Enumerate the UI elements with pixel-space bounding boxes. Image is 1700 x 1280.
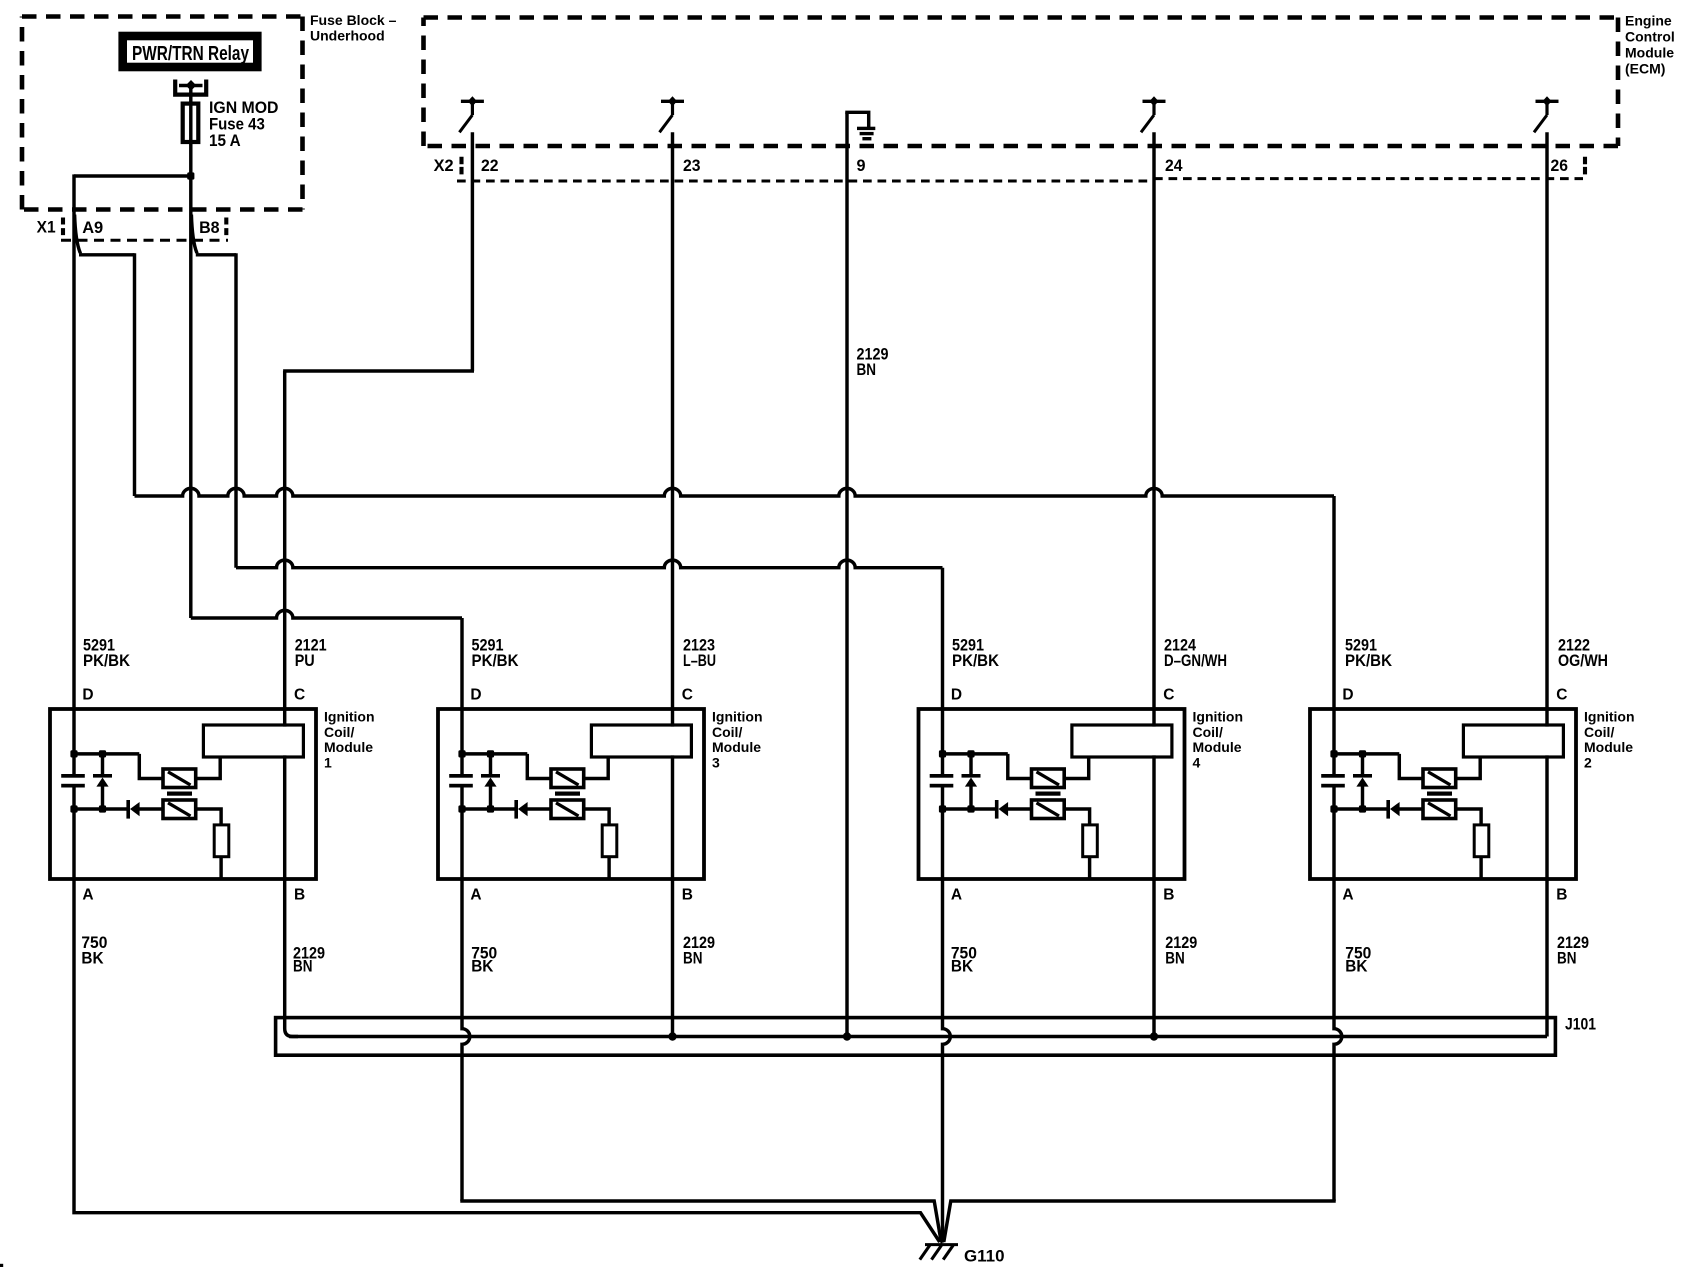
svg-text:Module: Module [324, 739, 373, 755]
wire pin B8 feed-through [189, 214, 192, 619]
wire coil 4 pin A 750 BK to ground [943, 879, 951, 1243]
fuse block - underhood dashed enclosure [22, 17, 303, 210]
coil 4 internal supply node wire [943, 752, 1008, 755]
coil 4 zener diode [962, 752, 981, 809]
coil 4 primary winding feed wire [1008, 754, 1032, 779]
wire coil 1 pin A 750 BK to ground [74, 879, 940, 1242]
svg-text:D: D [470, 686, 481, 703]
coil 1 resistor [214, 825, 229, 857]
svg-text:BK: BK [951, 957, 974, 976]
coil 3 pin A internal wire [460, 808, 463, 881]
svg-text:C: C [1556, 686, 1567, 703]
svg-text:2: 2 [1584, 755, 1592, 771]
ECM driver pin 26 symbol [1534, 96, 1559, 132]
label circuit 2124 D-GN/WH [1164, 636, 1227, 671]
label circuit 750 BK coil 2 [1345, 944, 1371, 976]
coil 1 transformer primary winding [163, 769, 196, 788]
coil 3 transformer primary winding [551, 769, 584, 788]
coil 2 transformer core [1427, 792, 1452, 796]
coil 3 secondary to resistor wire [584, 809, 609, 825]
wire through fuse [189, 101, 192, 176]
connector X1 right bracket [224, 218, 228, 237]
svg-text:24: 24 [1165, 156, 1183, 175]
svg-text:OG/WH: OG/WH [1558, 651, 1608, 670]
connector X2 bottom dashed edge [457, 180, 1154, 183]
svg-text:Ignition: Ignition [324, 709, 375, 725]
coil 1 diode [126, 800, 163, 819]
label Ignition Coil/Module 1 [324, 709, 375, 771]
svg-text:Module: Module [1625, 45, 1674, 61]
ignition coil module 1 box [50, 709, 316, 879]
coil 3 primary winding feed wire [527, 754, 551, 779]
coil 2 internal supply node wire [1334, 752, 1399, 755]
wire fuse output junction to A9 [74, 174, 191, 177]
coil 1 junction dot D node [70, 750, 77, 757]
label circuit 2123 L-BU [683, 636, 716, 671]
svg-text:Module: Module [712, 739, 761, 755]
coil 1 wire output box to pin B [283, 755, 286, 881]
label circuit 750 BK coil 4 [951, 944, 977, 976]
svg-text:J101: J101 [1565, 1014, 1596, 1033]
svg-text:BN: BN [683, 948, 703, 967]
wire coil 2 pin B 2129 BN into splice [1545, 879, 1548, 1037]
svg-text:Coil/: Coil/ [1193, 724, 1223, 740]
label Fuse Block - Underhood [310, 12, 397, 43]
coil 3 zener diode [481, 752, 500, 809]
coil 3 wire output box to pin B [671, 755, 674, 881]
svg-text:PWR/TRN Relay: PWR/TRN Relay [132, 43, 250, 65]
coil 2 junction dot D node [1330, 750, 1337, 757]
coil 4 diode [995, 800, 1032, 819]
label circuit 2129 BN coil 3 [683, 933, 715, 967]
coil 3 internal supply node wire [462, 752, 527, 755]
coil 2 junction dot A node [1330, 805, 1337, 812]
coil 2 zener diode [1353, 752, 1372, 809]
coil 4 secondary output box [1072, 725, 1172, 757]
svg-text:BK: BK [81, 948, 104, 967]
wire pigtail B8 horizontal [196, 253, 236, 256]
coil 4 transformer secondary winding [1032, 800, 1065, 819]
connector X1 bottom dashed edge [61, 239, 228, 242]
coil 1 junction dot A node [70, 805, 77, 812]
svg-text:23: 23 [683, 156, 701, 175]
coil 2 wire output box to pin B [1545, 755, 1548, 881]
svg-text:L–BU: L–BU [683, 651, 716, 670]
wire pin A9 pigtail [75, 215, 81, 254]
coil 3 wire pin C into output box [671, 723, 674, 726]
splice bus 2129 BN [289, 1035, 1547, 1038]
svg-text:Engine: Engine [1625, 13, 1672, 29]
wire B8 branch down to bus [234, 253, 237, 568]
label circuit 2129 BN coil 2 [1557, 933, 1589, 967]
svg-text:3: 3 [712, 755, 720, 771]
junction dot splice coil 3 [668, 1032, 676, 1040]
svg-text:BN: BN [1165, 948, 1185, 967]
ignition coil module 2 box [1310, 709, 1576, 879]
label circuit 2122 OG/WH [1558, 636, 1608, 671]
wire ECM pin 9 ground 2129 BN [845, 112, 848, 1036]
coil 1 junction dot zener top [99, 750, 106, 757]
label circuit 5291 PK/BK coil 3 [472, 636, 520, 671]
svg-text:B: B [1163, 887, 1174, 904]
label circuit 5291 PK/BK coil 2 [1345, 636, 1393, 671]
svg-text:BN: BN [1557, 948, 1577, 967]
coil 3 resistor [602, 825, 617, 857]
ignition coil module 4 box [919, 709, 1185, 879]
coil 2 resistor [1474, 825, 1489, 857]
wire node to X1 pin A9 [72, 174, 75, 213]
wire relay to fuse [189, 86, 192, 104]
coil 4 wire pin C into output box [1152, 723, 1155, 726]
coil 1 ground row wire [74, 807, 127, 810]
label Ignition Coil/Module 2 [1584, 709, 1635, 771]
coil 4 junction dot D node [939, 750, 946, 757]
junction dot splice ECM ground [843, 1032, 851, 1040]
coil 2 junction dot zener top [1359, 750, 1366, 757]
coil 1 resistor to case wire [219, 857, 222, 878]
svg-text:Module: Module [1584, 739, 1633, 755]
coil 3 junction dot zener top [487, 750, 494, 757]
wire coil 3 pin B 2129 BN [671, 879, 674, 1037]
svg-text:15 A: 15 A [209, 131, 241, 150]
svg-text:Ignition: Ignition [1584, 709, 1635, 725]
ignition coil module 3 box [438, 709, 704, 879]
svg-text:B: B [294, 887, 305, 904]
label circuit 5291 PK/BK coil 4 [952, 636, 1000, 671]
svg-text:PK/BK: PK/BK [83, 651, 131, 670]
ECM driver pin 23 symbol [660, 96, 685, 132]
svg-text:D: D [82, 686, 93, 703]
coil 2 primary winding feed wire [1399, 754, 1423, 779]
coil 2 resistor to case wire [1479, 857, 1482, 878]
svg-text:Ignition: Ignition [712, 709, 763, 725]
fuse IGN MOD Fuse 43 15 A [183, 104, 199, 142]
connector X1 left bracket [61, 218, 65, 237]
coil 1 internal supply node wire [74, 752, 139, 755]
svg-text:Module: Module [1193, 739, 1242, 755]
ECM internal ground symbol at pin 9 [847, 112, 875, 140]
svg-text:9: 9 [857, 156, 866, 175]
coil 1 transformer secondary winding [163, 800, 196, 819]
coil 3 ground row wire [462, 807, 515, 810]
connector X2 left bracket [459, 157, 463, 177]
coil 1 primary winding feed wire [139, 754, 163, 779]
coil 2 transformer primary winding [1423, 769, 1456, 788]
coil 4 junction dot zener top [967, 750, 974, 757]
splice pack J101 box [276, 1018, 1556, 1056]
svg-text:Coil/: Coil/ [1584, 724, 1614, 740]
svg-text:(ECM): (ECM) [1625, 61, 1665, 77]
svg-text:X2: X2 [434, 156, 454, 175]
svg-text:A: A [470, 887, 481, 904]
relay K1 PWR/TRN Relay box [123, 36, 258, 67]
coil 4 ground row wire [943, 807, 996, 810]
junction dot splice coil 4 [1150, 1032, 1158, 1040]
label circuit 750 BK coil 3 [471, 944, 497, 976]
svg-text:22: 22 [481, 156, 499, 175]
svg-text:BN: BN [857, 360, 877, 379]
svg-text:C: C [294, 686, 305, 703]
wire coil 2 pin A 750 BK to ground [1334, 879, 1342, 1201]
coil 4 transformer primary winding [1032, 769, 1065, 788]
ECM driver pin 24 symbol [1141, 96, 1166, 132]
svg-text:PK/BK: PK/BK [952, 651, 1000, 670]
coil 4 wire output box to pin B [1152, 755, 1155, 881]
svg-text:C: C [682, 686, 693, 703]
coil 3 transformer core [555, 792, 580, 796]
wire fuse to X1 pin B8 [189, 176, 192, 214]
coil 3 secondary output box [591, 725, 691, 757]
coil 4 junction dot A node [939, 805, 946, 812]
coil 4 transformer core [1036, 792, 1061, 796]
coil 2 capacitor [1321, 752, 1345, 809]
svg-text:PK/BK: PK/BK [1345, 651, 1393, 670]
wire coil 1 pin B 2129 BN into splice [285, 879, 298, 1037]
svg-text:B: B [1556, 887, 1567, 904]
svg-text:A: A [1342, 887, 1353, 904]
svg-text:A: A [82, 887, 93, 904]
wire pin A9 feed-through [72, 214, 75, 756]
coil 1 wire pin C into output box [283, 723, 286, 726]
wire coil 4 pin B 2129 BN [1152, 879, 1155, 1037]
svg-text:Fuse Block –: Fuse Block – [310, 12, 397, 28]
coil 4 primary to output box wire [1064, 757, 1089, 779]
wire pin B8 pigtail [191, 215, 196, 254]
svg-text:X1: X1 [37, 217, 56, 236]
coil 3 capacitor [449, 752, 473, 809]
svg-text:PK/BK: PK/BK [472, 651, 520, 670]
coil 3 junction dot D node [458, 750, 465, 757]
wire 2121 PU down to coil 1 pin C [283, 371, 286, 727]
coil 2 ground row wire [1334, 807, 1387, 810]
svg-text:B: B [682, 887, 693, 904]
svg-text:D–GN/WH: D–GN/WH [1164, 651, 1227, 670]
svg-text:A9: A9 [82, 218, 103, 237]
coil 3 transformer secondary winding [551, 800, 584, 819]
coil 4 capacitor [930, 752, 954, 809]
label circuit 2129 BN coil 1 [293, 944, 325, 976]
coil 2 diode [1386, 800, 1423, 819]
label circuit 2121 PU [295, 636, 327, 671]
svg-text:A: A [951, 887, 962, 904]
coil 1 pin A internal wire [72, 808, 75, 881]
label Ignition Coil/Module 3 [712, 709, 763, 771]
relay contact terminal bracket [175, 80, 206, 95]
svg-text:26: 26 [1551, 156, 1569, 175]
scan artifact mark bottom left [0, 1264, 3, 1267]
coil 3 diode [514, 800, 551, 819]
connector X2 right bracket [1583, 157, 1587, 177]
coil 3 junction dot A node [458, 805, 465, 812]
svg-text:Ignition: Ignition [1193, 709, 1244, 725]
coil 4 secondary to resistor wire [1064, 809, 1089, 825]
label Engine Control Module (ECM) [1625, 13, 1675, 77]
wire ECM pin 24 2124 D-GN/WH to coil 4 pin C [1152, 132, 1155, 726]
coil 1 secondary to resistor wire [196, 809, 221, 825]
svg-text:D: D [1342, 686, 1353, 703]
coil 1 transformer core [167, 792, 192, 796]
coil 2 wire pin C into output box [1545, 723, 1548, 726]
coil 1 capacitor [61, 752, 85, 809]
coil 1 junction dot zener bottom [99, 805, 106, 812]
label circuit 750 BK coil 1 [81, 933, 107, 967]
wire 2121 PU horizontal [283, 369, 474, 372]
label circuit 2129 BN at ECM pin 9 [857, 344, 889, 379]
coil 2 secondary output box [1463, 725, 1563, 757]
coil 2 transformer secondary winding [1423, 800, 1456, 819]
wire 5291 bus to coil 3 pin D [191, 610, 462, 618]
wire coil 3 pin A 750 BK to ground [462, 879, 470, 1201]
label Ignition Coil/Module 4 [1193, 709, 1244, 771]
svg-text:Control: Control [1625, 29, 1675, 45]
coil 3 junction dot zener bottom [487, 805, 494, 812]
svg-text:Coil/: Coil/ [324, 724, 354, 740]
label circuit 2129 BN coil 4 [1165, 933, 1197, 967]
connector X2 bottom dashed edge right [1154, 177, 1583, 180]
coil 2 primary to output box wire [1456, 757, 1481, 779]
relay contact diamond node [186, 80, 197, 91]
coil 2 secondary to resistor wire [1456, 809, 1481, 825]
svg-text:BK: BK [1345, 957, 1368, 976]
ground G110 symbol [920, 1231, 958, 1260]
coil 4 junction dot zener bottom [967, 805, 974, 812]
svg-text:PU: PU [295, 651, 315, 670]
coil 1 secondary output box [203, 725, 303, 757]
svg-text:4: 4 [1193, 755, 1201, 771]
wire ECM pin 22 ignition control 1 [471, 132, 474, 371]
wire pigtail A9 horizontal [79, 253, 135, 256]
relay contact bar [179, 84, 203, 88]
label IGN MOD Fuse 43 15 A [209, 98, 279, 150]
svg-text:BN: BN [293, 957, 313, 976]
svg-text:Coil/: Coil/ [712, 724, 742, 740]
svg-text:C: C [1163, 686, 1174, 703]
coil 2 pin A internal wire [1332, 808, 1335, 881]
svg-text:BK: BK [471, 957, 494, 976]
coil 1 zener diode [93, 752, 112, 809]
coil 3 resistor to case wire [607, 857, 610, 878]
junction dot fuse output [187, 172, 194, 179]
svg-text:B8: B8 [199, 218, 220, 237]
svg-text:Underhood: Underhood [310, 28, 385, 44]
engine control module ECM dashed enclosure [424, 18, 1619, 147]
wire ECM pin 26 2122 OG/WH to coil 2 pin C [1545, 132, 1548, 726]
coil 1 primary to output box wire [196, 757, 221, 779]
wire ECM pin 23 2123 L-BU to coil 3 pin C [671, 132, 674, 726]
svg-text:1: 1 [324, 755, 332, 771]
label circuit 5291 PK/BK coil 1 [83, 636, 131, 671]
coil 3 primary to output box wire [584, 757, 609, 779]
wire A9 branch down to bus [133, 253, 136, 496]
coil 4 resistor [1083, 825, 1098, 857]
wire 5291 bus to coil 4 pin D [236, 560, 943, 568]
svg-text:G110: G110 [964, 1247, 1005, 1266]
coil 4 resistor to case wire [1088, 857, 1091, 878]
ECM driver pin 22 symbol [459, 96, 484, 132]
coil 4 pin A internal wire [941, 808, 944, 881]
coil 2 junction dot zener bottom [1359, 805, 1366, 812]
wire 5291 bus to coil 2 pin D [135, 488, 1335, 496]
svg-text:D: D [951, 686, 962, 703]
